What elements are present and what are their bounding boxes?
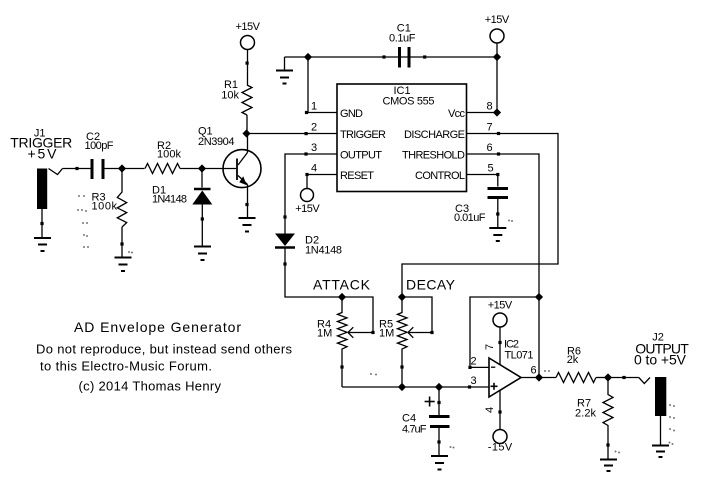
ground D1 bbox=[194, 247, 211, 261]
svg-text:100k: 100k bbox=[157, 149, 182, 161]
wire J1 to C2 bbox=[63, 168, 91, 170]
svg-text:+15V: +15V bbox=[295, 203, 320, 215]
resistor R2 bbox=[145, 164, 180, 174]
svg-text:DECAY: DECAY bbox=[406, 277, 456, 293]
ground J1 bbox=[34, 238, 51, 251]
svg-text:2.2k: 2.2k bbox=[575, 408, 597, 420]
wire node down to R3 bbox=[121, 169, 123, 191]
svg-text:GND: GND bbox=[340, 108, 363, 120]
svg-text:1M: 1M bbox=[317, 328, 332, 340]
pin square marker bbox=[497, 132, 500, 135]
capacitor C3 bbox=[488, 189, 509, 198]
svg-text:2N3904: 2N3904 bbox=[198, 136, 235, 148]
svg-text:100pF: 100pF bbox=[85, 140, 114, 152]
pin square marker bbox=[498, 410, 501, 413]
pin square marker bbox=[40, 222, 43, 225]
ground top rail bbox=[276, 57, 293, 84]
svg-text:+15V: +15V bbox=[235, 21, 260, 33]
ground C3 bbox=[489, 228, 506, 241]
resistor R1 bbox=[242, 85, 252, 115]
capacitor C1 bbox=[400, 47, 410, 68]
pin square marker bbox=[305, 111, 308, 114]
svg-text:10k: 10k bbox=[221, 90, 239, 102]
wire collector node to IC1 pin2 bbox=[247, 133, 338, 135]
svg-text:4: 4 bbox=[311, 163, 317, 175]
potentiometer R4 wiper bbox=[342, 297, 375, 338]
svg-text:2k: 2k bbox=[567, 354, 579, 366]
svg-text:0.1uF: 0.1uF bbox=[389, 33, 416, 45]
wire node down to D1 bbox=[201, 169, 203, 188]
power -15V supply IC2 pin4 bbox=[493, 430, 507, 444]
wire IC1 pin6 THRESHOLD to op-amp output bbox=[467, 154, 540, 378]
wire R1 bottom to collector node bbox=[246, 115, 248, 134]
svg-text:4: 4 bbox=[484, 407, 496, 413]
svg-text:8: 8 bbox=[487, 101, 493, 113]
wire J1 sleeve to ground bbox=[41, 209, 43, 238]
potentiometer R4 body bbox=[338, 297, 348, 387]
wire IC1 pin4 RESET to +15V bbox=[307, 175, 337, 189]
capacitor C4 (electrolytic) bbox=[425, 387, 450, 456]
speckle artifacts bbox=[77, 195, 675, 454]
pin square marker bbox=[622, 376, 625, 379]
wire J2 sleeve to ground bbox=[660, 416, 662, 446]
wire R3 to ground bbox=[121, 227, 123, 258]
wire C2 to R3 node bbox=[105, 168, 145, 170]
svg-text:-15V: -15V bbox=[488, 442, 513, 454]
svg-text:ATTACK: ATTACK bbox=[313, 277, 371, 293]
ground R7 bbox=[600, 460, 617, 472]
pin square marker bbox=[283, 262, 286, 265]
svg-text:2: 2 bbox=[311, 122, 317, 134]
pin square marker bbox=[496, 173, 499, 176]
svg-text:3: 3 bbox=[311, 142, 317, 154]
wire top rail (pin1 bypass rail) bbox=[285, 56, 498, 58]
svg-text:0.01uF: 0.01uF bbox=[454, 212, 486, 224]
jack J1 tip contact bbox=[49, 169, 63, 175]
svg-text:OUTPUT: OUTPUT bbox=[340, 150, 382, 162]
capacitor C2 bbox=[92, 159, 103, 179]
svg-text:+15V: +15V bbox=[488, 300, 513, 312]
svg-text:CONTROL: CONTROL bbox=[415, 170, 465, 182]
wire +15V to Vcc pin8 bbox=[467, 43, 498, 113]
node op-amp output junction bbox=[535, 373, 543, 381]
node C4 junction bbox=[435, 383, 443, 391]
wire IC1 pin3 OUTPUT to D2 bbox=[285, 154, 337, 234]
pin square marker bbox=[400, 365, 403, 368]
svg-text:+15V: +15V bbox=[485, 14, 510, 26]
pin square marker bbox=[75, 167, 78, 170]
svg-text:THRESHOLD: THRESHOLD bbox=[402, 150, 465, 162]
wire IC2 pin7 bbox=[499, 327, 501, 365]
svg-text:(c) 2014 Thomas Henry: (c) 2014 Thomas Henry bbox=[79, 379, 222, 394]
wire D2 to ATTACK node bbox=[285, 247, 342, 297]
node C2/R3/R2 junction bbox=[118, 164, 126, 172]
node collector junction bbox=[242, 129, 250, 137]
pin square marker bbox=[120, 242, 123, 245]
wire +15V circle to R1 top bbox=[247, 50, 249, 86]
node +15V / rail junction bbox=[493, 53, 501, 61]
wire C3 to ground bbox=[497, 199, 499, 228]
wire IC1 pin7 DISCHARGE to DECAY node bbox=[402, 134, 558, 298]
wire op-amp output to R6 bbox=[521, 377, 556, 379]
svg-text:1M: 1M bbox=[379, 328, 394, 340]
pin square marker bbox=[245, 203, 248, 206]
wire Q1 collector up bbox=[247, 134, 249, 153]
pin square marker bbox=[606, 443, 609, 446]
pin square marker bbox=[201, 217, 204, 220]
power +15V supply top-right bbox=[490, 29, 504, 43]
node R5 bottom junction bbox=[398, 383, 406, 391]
transistor Q1 bbox=[223, 150, 261, 188]
pin square marker bbox=[468, 385, 471, 388]
node R2/D1/base junction bbox=[198, 164, 206, 172]
potentiometer R5 wiper bbox=[402, 297, 434, 338]
wire R6 to output node bbox=[596, 377, 608, 379]
svg-text:CMOS 555: CMOS 555 bbox=[383, 96, 435, 108]
pin square marker bbox=[468, 366, 471, 369]
svg-text:AD Envelope Generator: AD Envelope Generator bbox=[74, 319, 241, 335]
wire envelope node to op-amp pin3 bbox=[342, 386, 489, 388]
power +15V supply IC2 pin7 bbox=[493, 313, 507, 327]
node pin8 bbox=[493, 108, 501, 116]
potentiometer R5 body bbox=[398, 297, 408, 387]
diode D2 bbox=[275, 234, 295, 248]
pin square marker bbox=[305, 173, 308, 176]
node ATTACK bbox=[338, 293, 346, 301]
wire R2 to base node bbox=[180, 168, 202, 170]
ground J2 bbox=[652, 446, 669, 458]
pin square marker bbox=[423, 55, 426, 58]
op-amp / timer IC1 box bbox=[337, 84, 467, 192]
node top rail / pin1 riser bbox=[304, 53, 312, 61]
pin square marker bbox=[496, 212, 499, 215]
svg-text:1: 1 bbox=[311, 101, 317, 113]
svg-text:DISCHARGE: DISCHARGE bbox=[404, 129, 465, 141]
resistor R3 bbox=[117, 190, 126, 227]
svg-text:RESET: RESET bbox=[340, 170, 374, 182]
power +15V supply at RESET bbox=[301, 189, 314, 202]
pin square marker bbox=[340, 365, 343, 368]
resistor R6 bbox=[556, 373, 596, 383]
connector J2 jack body bbox=[655, 377, 666, 416]
svg-text:5: 5 bbox=[488, 163, 494, 175]
svg-text:7: 7 bbox=[487, 122, 493, 134]
svg-text:1N4148: 1N4148 bbox=[152, 194, 187, 206]
svg-text:7: 7 bbox=[484, 344, 496, 350]
pin square marker bbox=[382, 55, 385, 58]
power +15V supply top-left (over R1) bbox=[241, 36, 255, 50]
svg-text:+5V: +5V bbox=[28, 146, 58, 162]
svg-text:to this Electro-Music Forum.: to this Electro-Music Forum. bbox=[40, 359, 212, 374]
svg-text:TL071: TL071 bbox=[505, 350, 534, 362]
pin square marker bbox=[497, 152, 500, 155]
op-amp plus sign bbox=[491, 383, 498, 390]
pin square marker bbox=[283, 215, 286, 218]
wire node to Q1 base bbox=[202, 168, 236, 170]
ground Q1 emitter bbox=[239, 218, 256, 232]
pin square marker bbox=[304, 152, 307, 155]
connector J1 jack body bbox=[37, 169, 47, 210]
op-amp IC2 triangle bbox=[489, 358, 521, 397]
node DECAY bbox=[398, 293, 406, 301]
pin square marker bbox=[305, 132, 308, 135]
diode D1 bbox=[192, 189, 212, 205]
svg-text:3: 3 bbox=[471, 375, 477, 387]
ground C4 bbox=[431, 456, 448, 470]
svg-text:Do not reproduce, but instead: Do not reproduce, but instead send other… bbox=[36, 342, 293, 357]
node output junction bbox=[604, 373, 612, 381]
svg-text:4.7uF: 4.7uF bbox=[402, 424, 427, 436]
svg-text:6: 6 bbox=[531, 365, 537, 377]
jack J2 tip contact bbox=[639, 378, 650, 384]
svg-text:2: 2 bbox=[471, 356, 477, 368]
resistor R7 bbox=[603, 378, 613, 460]
svg-text:Vcc: Vcc bbox=[448, 108, 466, 120]
op-amp minus sign bbox=[491, 366, 495, 368]
wire D1 to ground bbox=[201, 205, 203, 247]
wire IC2 pin4 bbox=[499, 391, 501, 430]
pin square marker bbox=[498, 341, 501, 344]
ground R3 bbox=[115, 258, 132, 272]
pin square marker bbox=[246, 62, 249, 65]
wire IC1 pin5 CONTROL to C3 bbox=[467, 175, 498, 187]
svg-text:6: 6 bbox=[487, 142, 493, 154]
wire op-amp pin2 feedback bbox=[470, 297, 539, 367]
wire Q1 emitter to ground bbox=[247, 185, 249, 219]
svg-text:0 to +5V: 0 to +5V bbox=[634, 352, 687, 368]
wire output node to J2 bbox=[608, 377, 639, 379]
svg-text:1N4148: 1N4148 bbox=[305, 245, 342, 257]
wire pin1 riser bbox=[308, 57, 337, 113]
node threshold/feedback junction bbox=[535, 293, 543, 301]
svg-text:TRIGGER: TRIGGER bbox=[340, 129, 386, 141]
svg-text:100k: 100k bbox=[92, 201, 118, 213]
